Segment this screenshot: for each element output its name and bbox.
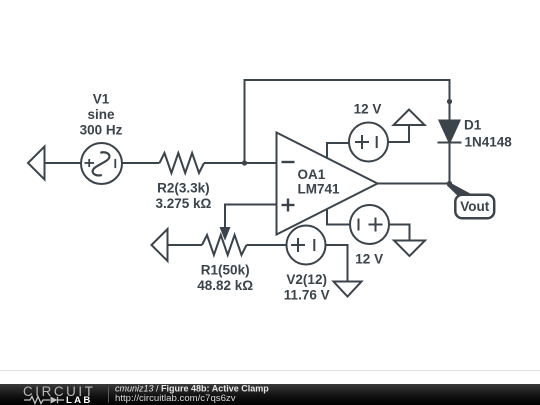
svg-text:Vout: Vout: [460, 199, 489, 214]
svg-text:sine: sine: [87, 107, 115, 122]
svg-text:LAB: LAB: [66, 395, 93, 405]
svg-text:cmuniz13 / Figure 48b: Active: cmuniz13 / Figure 48b: Active Clamp: [115, 383, 269, 393]
svg-text:3.275 kΩ: 3.275 kΩ: [155, 196, 211, 211]
svg-text:48.82 kΩ: 48.82 kΩ: [197, 278, 253, 293]
svg-text:300 Hz: 300 Hz: [80, 122, 123, 137]
svg-text:LM741: LM741: [298, 182, 341, 197]
svg-text:R2(3.3k): R2(3.3k): [157, 181, 210, 196]
svg-text:OA1: OA1: [298, 167, 326, 182]
svg-text:D1: D1: [464, 118, 482, 133]
svg-text:11.76 V: 11.76 V: [284, 288, 330, 303]
svg-text:V2(12): V2(12): [286, 272, 327, 287]
svg-text:1N4148: 1N4148: [465, 135, 513, 150]
svg-text:12 V: 12 V: [354, 102, 382, 117]
svg-text:R1(50k): R1(50k): [201, 263, 250, 278]
svg-text:12 V: 12 V: [355, 252, 383, 267]
svg-text:V1: V1: [93, 91, 110, 106]
svg-text:http://circuitlab.com/c7qs6zv: http://circuitlab.com/c7qs6zv: [115, 393, 236, 404]
